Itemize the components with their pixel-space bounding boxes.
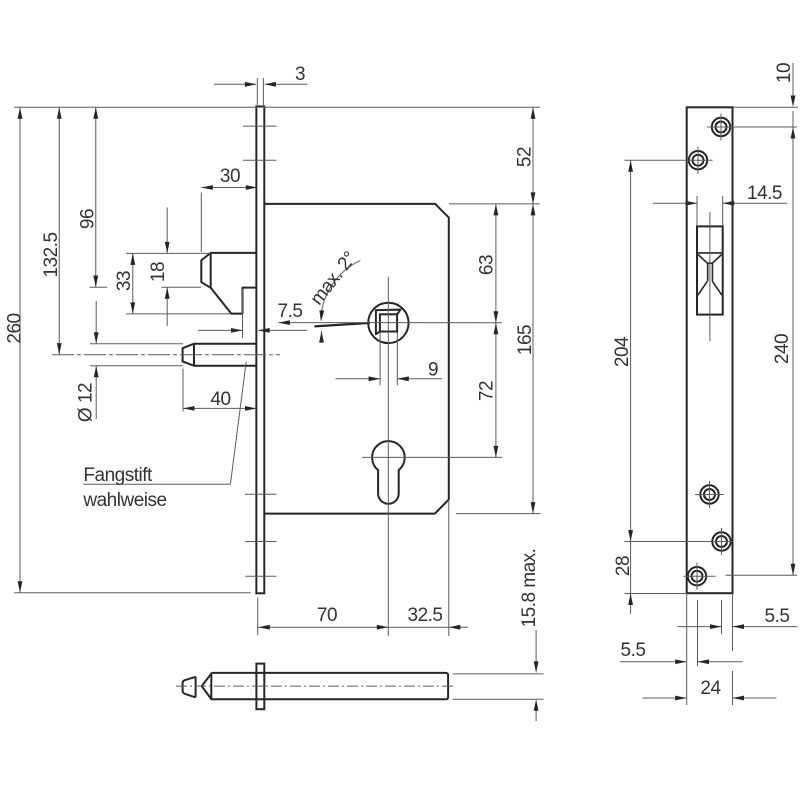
latch window outer bbox=[697, 226, 723, 314]
dimension 28 bbox=[630, 542, 632, 615]
latch window centerline bbox=[709, 212, 711, 341]
dimension 132.5 to pin axis bbox=[58, 107, 60, 354]
svg-text:96: 96 bbox=[78, 209, 99, 229]
faceplate front view plate bbox=[687, 107, 733, 593]
pin detail body bbox=[211, 673, 448, 699]
svg-text:165: 165 bbox=[515, 325, 536, 355]
screw hole lower A bbox=[700, 485, 718, 503]
dimension 33 latch height bbox=[132, 253, 134, 314]
dimension 5.5 edge to hole C bbox=[620, 661, 686, 663]
extension latch hook right edge down bbox=[242, 289, 244, 338]
cylinder horizontal centerline bbox=[362, 456, 502, 458]
extension below plate for 28 bbox=[625, 593, 687, 595]
dimension 70 and 32.5 chain bbox=[258, 626, 449, 628]
extension case bottom right bbox=[456, 513, 541, 515]
dimension 63 follower axis bbox=[495, 204, 497, 323]
svg-text:132.5: 132.5 bbox=[41, 232, 62, 277]
screw hole lower B bbox=[712, 532, 730, 550]
euro profile cylinder hole bbox=[372, 441, 405, 504]
dimension 96 to latch bottom bbox=[95, 107, 97, 287]
dimension 7.5 lever throw bbox=[278, 320, 290, 325]
svg-text:72: 72 bbox=[477, 381, 498, 401]
dimension 260 faceplate length bbox=[19, 107, 21, 593]
svg-text:63: 63 bbox=[477, 255, 498, 275]
hole center ticks bbox=[707, 126, 797, 128]
faceplate screw ticks bbox=[243, 125, 277, 127]
follower square spindle hole 9mm bbox=[380, 314, 397, 331]
dimension 5.5 hole B to edge bbox=[678, 626, 722, 628]
faceplate edges extended up for dim 3 bbox=[256, 78, 258, 105]
svg-text:240: 240 bbox=[772, 334, 793, 364]
screw hole bottom C bbox=[688, 567, 706, 585]
follower horizontal centerline with lever nominal bbox=[278, 322, 502, 324]
extension pin tip for dim 40 bbox=[182, 369, 184, 412]
svg-text:5.5: 5.5 bbox=[621, 640, 646, 661]
dimension 10 hole offset bbox=[792, 63, 794, 103]
follower lever line rotated 2 deg bbox=[315, 323, 371, 327]
dimension 40 pin length bbox=[183, 407, 257, 409]
svg-text:40: 40 bbox=[210, 389, 230, 410]
extension pin top and bottom bbox=[90, 343, 183, 345]
extension latch top left bbox=[126, 252, 211, 254]
dimension 24 plate width bbox=[643, 697, 687, 699]
svg-text:204: 204 bbox=[612, 336, 633, 367]
extension latch hook bottom bbox=[126, 313, 231, 315]
follower square rotated position (flag) bbox=[376, 310, 401, 335]
extension lines square hole sides bbox=[379, 332, 381, 385]
svg-text:10: 10 bbox=[774, 63, 795, 83]
svg-text:9: 9 bbox=[428, 360, 438, 381]
svg-text:24: 24 bbox=[700, 678, 721, 699]
dimension dia 12 pin bbox=[95, 301, 97, 343]
svg-text:32.5: 32.5 bbox=[408, 605, 443, 626]
svg-text:15.8 max.: 15.8 max. bbox=[519, 549, 540, 628]
extension latch left edge up bbox=[200, 192, 202, 252]
Fangstift pin head bbox=[183, 344, 194, 366]
svg-text:30: 30 bbox=[220, 166, 240, 187]
extension bottom of faceplate bbox=[14, 592, 251, 594]
svg-text:260: 260 bbox=[5, 313, 26, 343]
dimension 15.8 max bbox=[453, 673, 544, 675]
svg-text:18: 18 bbox=[148, 262, 169, 282]
svg-text:Fangstift: Fangstift bbox=[83, 465, 153, 486]
pin detail cap bbox=[183, 677, 196, 698]
dimension 165 case height bbox=[532, 204, 534, 514]
pin centerline dash-dot bbox=[52, 354, 280, 356]
dimension 9 square hole bbox=[336, 378, 380, 380]
extension case right edge down bbox=[448, 500, 450, 636]
svg-text:33: 33 bbox=[114, 271, 135, 291]
pin detail cone chevron bbox=[202, 674, 212, 700]
extension latch body bottom segments bbox=[90, 286, 108, 288]
svg-text:52: 52 bbox=[515, 147, 536, 167]
follower circle bbox=[368, 303, 408, 343]
svg-text:14.5: 14.5 bbox=[747, 183, 782, 204]
svg-text:Ø 12: Ø 12 bbox=[76, 383, 97, 422]
pin detail centerline dash-dot bbox=[176, 685, 455, 687]
dimension 18 latch body bbox=[166, 208, 168, 254]
angle wedge lower arrow bbox=[321, 331, 323, 339]
latch bolt bbox=[201, 253, 256, 314]
screw hole upper left bbox=[689, 151, 707, 169]
screw hole top right bbox=[712, 118, 730, 136]
extension faceplate down for dim 70 bbox=[257, 598, 259, 636]
extension hole C right for 240 bbox=[726, 574, 798, 576]
Fangstift pin in side view bbox=[194, 344, 256, 366]
faceplate (edge view, 3mm thick, 260mm long) bbox=[256, 106, 264, 593]
vertical centerline follower and cylinder bbox=[387, 277, 389, 636]
svg-text:5.5: 5.5 bbox=[765, 606, 790, 627]
dimension 3 faceplate thickness bbox=[214, 83, 256, 85]
dimension arrows latch to faceplate bbox=[198, 329, 242, 331]
svg-text:7.5: 7.5 bbox=[278, 301, 303, 322]
angle arc max 2 deg bbox=[321, 261, 361, 319]
extension plate top right bbox=[733, 106, 799, 108]
dimension 30 latch width bbox=[201, 187, 257, 189]
dimension 240 hole span bbox=[792, 111, 794, 575]
extension slot edges up for 14.5 bbox=[696, 196, 698, 226]
lock case outline bbox=[263, 204, 448, 514]
latch head base line bbox=[210, 253, 212, 288]
dimension 72 cylinder axis bbox=[495, 323, 497, 458]
extension top line y107 bbox=[14, 106, 540, 108]
extensions below plate bbox=[686, 594, 688, 706]
pin detail collar bbox=[256, 664, 264, 710]
svg-text:wahlweise: wahlweise bbox=[82, 490, 166, 511]
svg-text:70: 70 bbox=[317, 605, 337, 626]
svg-text:3: 3 bbox=[295, 64, 305, 85]
svg-text:28: 28 bbox=[613, 556, 634, 576]
dimension 52 case top offset bbox=[532, 107, 534, 204]
dimension 204 hole span bbox=[630, 160, 632, 541]
dimension 14.5 slot width bbox=[653, 202, 697, 204]
leader Fangstift bbox=[83, 483, 230, 485]
extension case top right bbox=[449, 203, 540, 205]
latch window inner shape bbox=[697, 252, 723, 254]
